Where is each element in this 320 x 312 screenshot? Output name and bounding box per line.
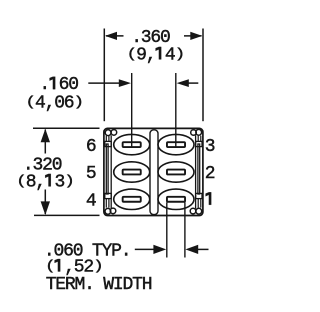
corner hole top-right inner <box>191 130 197 136</box>
svg-text:): ) <box>93 259 103 274</box>
contact oval pin 1 <box>158 189 194 209</box>
right terminal tab bottom <box>196 193 202 198</box>
corner hole top-left outer <box>105 130 111 136</box>
right terminal strip <box>198 144 200 194</box>
contact oval pin 5 <box>114 162 150 182</box>
left keying channel top <box>106 136 109 142</box>
dimension text (9,14) <box>127 45 185 65</box>
svg-text:(: ( <box>16 174 26 189</box>
svg-text:3: 3 <box>205 137 215 157</box>
corner hole top-left inner <box>111 130 117 136</box>
svg-text:8,: 8, <box>26 172 45 192</box>
dimension line .060 right segment <box>197 248 209 250</box>
dimension line .160 left segment <box>88 82 119 84</box>
dimension line .360 right segment <box>184 35 202 37</box>
contact slot pin 3 <box>167 142 185 147</box>
svg-text:9,: 9, <box>136 45 155 65</box>
svg-text:TERM. WIDTH: TERM. WIDTH <box>46 275 152 295</box>
svg-text:3: 3 <box>55 172 65 192</box>
dimension line .160 right segment <box>188 82 199 84</box>
extension line .360 right <box>202 29 204 122</box>
extension line .320 bottom <box>34 214 100 216</box>
svg-text:4: 4 <box>86 192 96 212</box>
contact slot pin 2 <box>167 170 185 175</box>
dimension line .320 top segment <box>44 130 46 154</box>
corner hole bottom-left inner <box>110 208 116 214</box>
right terminal tab top <box>196 141 202 146</box>
arrowhead .160 right (points left) <box>177 79 189 87</box>
left inner wall <box>110 135 112 209</box>
extension line .320 top <box>33 127 100 129</box>
svg-text:(: ( <box>45 259 55 274</box>
svg-text:60: 60 <box>59 75 79 95</box>
corner hole bottom-left outer <box>105 208 111 214</box>
dimension line .360 left segment <box>106 35 124 37</box>
left terminal tab bottom <box>105 193 111 198</box>
svg-text:.: . <box>39 75 49 95</box>
contact oval pin 2 <box>158 162 194 182</box>
extension line .360 left <box>103 29 105 122</box>
contact slot pin 4 <box>123 197 141 202</box>
arrowhead .160 left (points right) <box>119 79 131 87</box>
extension line term width right <box>184 202 186 257</box>
contact slot pin 5 <box>123 170 141 175</box>
arrowhead .360 right <box>190 32 202 40</box>
contact oval pin 4 <box>114 189 150 209</box>
dimension text (1,52) <box>45 258 103 278</box>
arrowhead .320 up <box>41 129 50 143</box>
right inner wall <box>195 135 197 209</box>
contact slot pin 6 <box>123 142 141 147</box>
left keying channel bottom <box>106 199 109 208</box>
arrowhead .060 right (points left) <box>185 245 198 254</box>
svg-text:(: ( <box>25 94 35 109</box>
svg-text:6: 6 <box>86 137 96 157</box>
contact oval pin 3 <box>158 134 194 154</box>
left terminal tab top <box>105 141 111 146</box>
contact oval pin 6 <box>114 134 150 154</box>
corner hole bottom-right outer <box>196 208 202 214</box>
svg-text:(: ( <box>127 47 137 62</box>
switch body outline <box>104 128 203 215</box>
arrowhead .360 left <box>105 32 117 40</box>
svg-text:): ) <box>175 47 185 62</box>
svg-text:4,06: 4,06 <box>35 93 74 113</box>
dimension line .060 left segment <box>135 248 155 250</box>
svg-text:4: 4 <box>165 45 175 65</box>
svg-text:): ) <box>73 94 83 109</box>
arrowhead .060 left (points right) <box>153 245 166 254</box>
extension line lead center right <box>175 73 177 147</box>
dimension line .320 bottom segment <box>44 190 46 215</box>
extension line term width left <box>166 202 168 257</box>
svg-text:2: 2 <box>205 164 215 184</box>
right keying channel top <box>198 136 201 142</box>
corner hole top-right outer <box>196 129 202 135</box>
pin number 1 <box>206 192 212 205</box>
corner hole bottom-right inner <box>190 208 196 214</box>
dimension text (8,13) <box>16 172 74 192</box>
right keying channel bottom <box>198 199 201 208</box>
dimension text (4,06) <box>25 93 83 113</box>
left terminal strip <box>106 144 108 194</box>
svg-text:): ) <box>64 174 74 189</box>
svg-text:5: 5 <box>86 164 96 184</box>
extension line lead center left <box>131 73 133 147</box>
center divider bar <box>150 130 158 215</box>
arrowhead .320 down <box>41 201 50 215</box>
contact slot pin 1 <box>167 197 185 202</box>
